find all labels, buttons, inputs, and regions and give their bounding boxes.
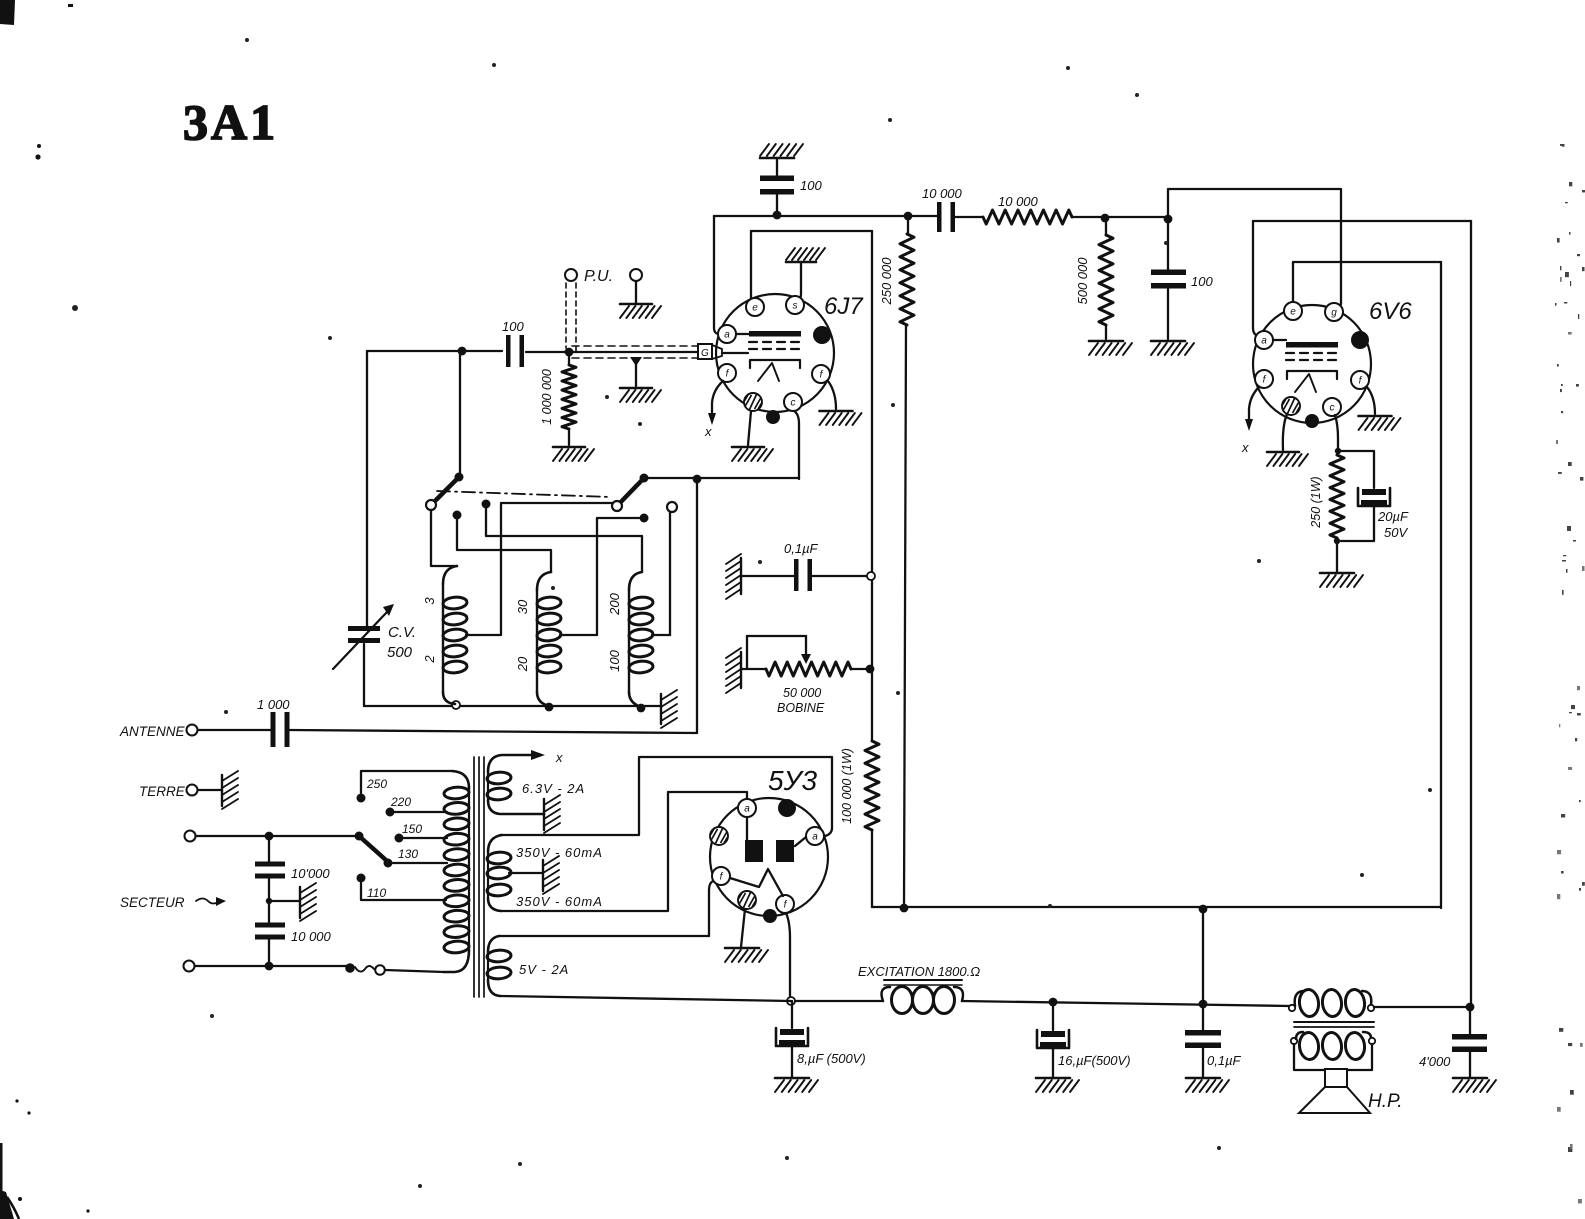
svg-text:s: s xyxy=(793,301,798,312)
wire rail to choke xyxy=(795,1000,883,1002)
transformer 350V winding xyxy=(487,835,512,911)
node screen/pot xyxy=(866,665,875,674)
node cathode/antenna xyxy=(693,475,702,484)
wire terre to ground xyxy=(198,789,222,791)
wire rail riser to lower rail xyxy=(1202,909,1204,1004)
wire antenna line xyxy=(289,730,697,733)
svg-text:EXCITATION 1800.Ω: EXCITATION 1800.Ω xyxy=(858,964,980,979)
wire 6J7 plate bus xyxy=(714,215,939,217)
ground (below 100pF 6V6) xyxy=(1151,341,1194,355)
svg-text:a: a xyxy=(1261,336,1267,347)
contact band 3 right xyxy=(667,502,677,512)
svg-text:8,µF (500V): 8,µF (500V) xyxy=(797,1051,866,1066)
svg-text:250 000: 250 000 xyxy=(879,257,894,306)
node coil2 bottom xyxy=(545,703,554,712)
ground block (6.3V) xyxy=(544,795,560,833)
scan artifact bottom-left xyxy=(0,1099,90,1219)
transformer T1 core xyxy=(474,757,484,997)
node mains/cap1 xyxy=(265,832,274,841)
ground (below 0,1µF) xyxy=(1186,1078,1229,1092)
contact 150 xyxy=(395,822,448,843)
resistor 500 000 (grid leak) xyxy=(1075,218,1113,339)
node rectifier output xyxy=(787,997,795,1005)
ground block (mains filter) xyxy=(300,883,316,921)
node 500k top xyxy=(1101,214,1110,223)
choke EXCITATION 1800Ω xyxy=(858,964,980,1014)
capacitor 0,1µF (screen decoupling) xyxy=(784,541,819,591)
wire antenna riser xyxy=(696,479,698,733)
switch arm left (band selector) xyxy=(426,473,464,511)
wire gnd to pot xyxy=(741,668,766,670)
fuse/switch (mains) xyxy=(345,963,444,975)
output tube 6V6 xyxy=(1253,298,1412,428)
svg-text:1 000: 1 000 xyxy=(257,697,290,712)
wire gnd to 0,1µF xyxy=(741,575,794,577)
svg-text:150: 150 xyxy=(402,822,422,836)
node plate line / 4000 xyxy=(1466,1003,1475,1012)
node plate 6J7 xyxy=(773,211,782,220)
contact 110 xyxy=(357,874,447,901)
ground (6V6 filament) xyxy=(1359,416,1401,430)
node 16µF xyxy=(1049,998,1058,1007)
capacitor 10 000 (mains filter 1) xyxy=(255,836,330,924)
svg-text:BOBINE: BOBINE xyxy=(777,701,825,715)
svg-text:TERRE: TERRE xyxy=(139,784,186,799)
contact band 3 left xyxy=(482,500,491,509)
wire cap 100 to plate node xyxy=(776,191,778,215)
svg-text:100: 100 xyxy=(502,319,524,334)
svg-text:100: 100 xyxy=(1191,274,1213,289)
svg-text:5V - 2A: 5V - 2A xyxy=(519,962,569,977)
X marker (6V6 heater) xyxy=(1241,387,1259,455)
node mains bottom/cap2 xyxy=(265,962,274,971)
transformer T1 primary xyxy=(444,771,470,972)
wire cathode to ground xyxy=(1336,541,1338,572)
label 350V b xyxy=(516,894,603,909)
wire pot to screen line xyxy=(851,668,866,670)
wire mains top xyxy=(196,835,355,837)
capacitor 100 (6V6 grid) xyxy=(1151,219,1213,339)
ground (P.U. right) xyxy=(620,304,661,318)
scan speckles right edge xyxy=(1555,144,1585,1203)
svg-text:110: 110 xyxy=(367,886,386,900)
wire ground to cap 100 xyxy=(776,159,778,179)
node coil1 bottom xyxy=(452,701,460,709)
ground block (TERRE) xyxy=(222,771,238,809)
wire 5Y3 unused pin to ground xyxy=(741,909,745,947)
wire 6J7 screen box xyxy=(751,231,872,304)
switch link (dash-dot) xyxy=(437,491,610,497)
variable capacitor C.V. 500 xyxy=(333,604,416,669)
svg-text:20: 20 xyxy=(515,656,530,672)
svg-text:6J7: 6J7 xyxy=(824,293,864,320)
svg-text:C.V.: C.V. xyxy=(388,624,416,641)
wire screen feed vertical xyxy=(871,231,873,740)
wire cathode bus xyxy=(645,477,799,479)
loudspeaker H.P. xyxy=(1299,1069,1403,1113)
contact 220 xyxy=(386,795,448,817)
svg-text:20µF: 20µF xyxy=(1377,509,1409,524)
wire 350V center tap xyxy=(509,872,543,874)
switch arm right (band selector) xyxy=(612,474,649,512)
label 350V a xyxy=(516,845,603,860)
wire 350V top to 5Y3 plate xyxy=(500,757,832,836)
terminal ANTENNE xyxy=(119,724,198,739)
rectifier tube 5Y3 xyxy=(710,765,828,923)
svg-text:250 (1W): 250 (1W) xyxy=(1309,476,1323,528)
grid cap terminal G of 6J7 xyxy=(698,344,722,359)
svg-text:200: 200 xyxy=(607,592,622,615)
wire grid line left xyxy=(367,350,502,352)
svg-text:c: c xyxy=(791,398,796,409)
wire coil L1 tap xyxy=(466,503,612,635)
terminal P.U. left xyxy=(565,268,613,285)
capacitor 0,1µF (tone) xyxy=(1185,1004,1242,1077)
transformer 5V winding xyxy=(487,936,512,996)
switch arm mains selector xyxy=(355,832,388,862)
wire secondary to speaker xyxy=(1294,1044,1372,1070)
terminal SECTEUR top xyxy=(185,831,196,842)
svg-text:4'000: 4'000 xyxy=(1419,1054,1451,1069)
svg-text:6V6: 6V6 xyxy=(1369,298,1412,325)
arrow X (6.3V) xyxy=(531,750,563,765)
svg-text:e: e xyxy=(1290,307,1296,318)
svg-text:H.P.: H.P. xyxy=(1368,1091,1403,1112)
shield ground tap xyxy=(630,357,642,386)
wire arm to grid line xyxy=(459,351,461,473)
svg-text:2: 2 xyxy=(422,655,437,664)
node 0,1µF bottom xyxy=(1199,1000,1208,1009)
svg-text:e: e xyxy=(752,303,758,314)
svg-text:ANTENNE: ANTENNE xyxy=(119,724,186,739)
ground (shield) xyxy=(620,388,661,402)
svg-text:a: a xyxy=(724,330,730,341)
wire plate riser 6J7 xyxy=(714,216,718,334)
wire 5V top to 5Y3 filament xyxy=(499,881,713,936)
svg-text:350V - 60mA: 350V - 60mA xyxy=(516,894,603,909)
svg-text:x: x xyxy=(1241,440,1249,455)
node cathode top xyxy=(1335,448,1341,454)
wire screen drop to B+ rail xyxy=(1440,262,1442,908)
svg-text:50V: 50V xyxy=(1384,525,1408,540)
wire 5Y3 filament to rail xyxy=(786,913,790,1001)
svg-text:3: 3 xyxy=(422,597,437,605)
label 5V xyxy=(519,962,569,977)
svg-text:P.U.: P.U. xyxy=(584,268,613,285)
node 250k/B+ rail xyxy=(900,904,909,913)
wire contact to coil2 tap xyxy=(597,518,639,635)
svg-text:x: x xyxy=(555,750,563,765)
ground (top, above 100pF cap) xyxy=(760,144,803,158)
wire 6V6 plate line xyxy=(1253,221,1471,335)
svg-text:x: x xyxy=(704,424,712,439)
svg-text:10 000: 10 000 xyxy=(291,929,332,944)
node rail/0,1µF riser xyxy=(1199,905,1208,914)
wire coil L2 tap xyxy=(560,634,597,636)
svg-text:a: a xyxy=(744,804,750,815)
svg-text:5У3: 5У3 xyxy=(768,765,817,796)
svg-text:a: a xyxy=(812,832,818,843)
wire 6V6 grid riser xyxy=(1168,189,1341,308)
ground (below 500k) xyxy=(1089,341,1132,355)
wire 6V6 unused to ground xyxy=(1283,414,1287,450)
contact band 2 right xyxy=(640,514,649,523)
potentiometer 50 000 BOBINE xyxy=(747,636,851,715)
ground (6V6 cathode) xyxy=(1320,573,1363,587)
svg-text:10 000: 10 000 xyxy=(922,186,963,201)
svg-text:G: G xyxy=(701,348,709,359)
ground block (350V CT) xyxy=(543,856,559,894)
wire cap to resistor xyxy=(953,216,983,218)
terminal P.U. right xyxy=(630,269,642,303)
output transformer core xyxy=(1294,1022,1374,1027)
output transformer secondary xyxy=(1291,1032,1375,1061)
resistor 250 000 (plate load) xyxy=(879,216,914,907)
wire 6J7 f right to ground xyxy=(828,381,836,409)
shielded grid lead (dashed) xyxy=(566,283,697,358)
ground (below 16µF) xyxy=(1036,1078,1079,1092)
resistor 10 000 (series grid) xyxy=(983,194,1072,224)
label 6.3V xyxy=(522,781,585,796)
title 3A1 xyxy=(183,94,278,150)
node coil3 bottom xyxy=(637,704,646,713)
resistor 250 (1W) cathode xyxy=(1309,455,1344,538)
svg-text:100 000 (1W): 100 000 (1W) xyxy=(840,748,854,824)
terminal TERRE xyxy=(139,784,198,799)
scan artifact top-left blob xyxy=(0,0,73,160)
wire 350V bottom to 5Y3 plate xyxy=(501,792,747,911)
wire B+ rail xyxy=(872,906,1441,908)
ground (6J7 suppressor, inside box) xyxy=(786,248,825,301)
capacitor 16µF (filter) xyxy=(1037,1002,1131,1077)
ground (6J7 filament) xyxy=(820,411,862,425)
wire 0,1µF to screen line xyxy=(812,575,867,577)
wire rail choke to out-transformer xyxy=(962,1001,1290,1006)
wire resistor to grid node xyxy=(1072,216,1168,218)
node screen/0,1µF xyxy=(867,572,875,580)
wire antenna to cap xyxy=(198,729,271,731)
svg-text:0,1µF: 0,1µF xyxy=(1207,1053,1242,1068)
svg-text:220: 220 xyxy=(390,795,411,809)
svg-text:0,1µF: 0,1µF xyxy=(784,541,819,556)
svg-text:100: 100 xyxy=(607,649,622,671)
node grid/1M xyxy=(565,348,574,357)
svg-text:10'000: 10'000 xyxy=(291,866,330,881)
ground (below 1M) xyxy=(553,447,594,461)
capacitor 8µF (filter) xyxy=(776,1001,866,1077)
wire filter mid to ground xyxy=(269,900,300,902)
svg-text:250: 250 xyxy=(366,777,387,791)
contact 130 xyxy=(384,847,448,868)
ground (below 4000) xyxy=(1453,1078,1496,1092)
transformer 6.3V winding xyxy=(487,755,544,814)
resistor 1 000 000 (grid leak) xyxy=(540,352,576,445)
ground (below 5Y3) xyxy=(725,948,768,962)
coil L1 (3/2) xyxy=(422,510,467,704)
ground block (50 000 pot) xyxy=(726,648,741,693)
capacitor 10 000 (coupling) xyxy=(922,186,963,232)
capacitor 1 000 (antenna) xyxy=(257,697,290,747)
svg-text:350V - 60mA: 350V - 60mA xyxy=(516,845,603,860)
svg-text:g: g xyxy=(1331,308,1337,319)
svg-text:10 000: 10 000 xyxy=(998,194,1039,209)
wire 6J7 unused to ground xyxy=(748,411,751,445)
capacitor 10 000 (mains filter 2) xyxy=(255,923,332,967)
wire 6V6 f right to ground xyxy=(1367,387,1375,414)
svg-text:500 000: 500 000 xyxy=(1075,257,1090,305)
wire coil common (bottom of box) xyxy=(364,705,661,707)
contact band 2 left xyxy=(453,511,462,520)
pentode tube 6J7 xyxy=(716,293,864,424)
svg-text:30: 30 xyxy=(515,599,530,614)
wire grid to C.V. vertical xyxy=(366,351,368,627)
wire grid line right xyxy=(526,351,700,353)
wire 6V6 cathode xyxy=(1335,415,1338,451)
ground (below 6J7) xyxy=(732,447,773,461)
svg-text:100: 100 xyxy=(800,178,822,193)
label SECTEUR xyxy=(120,895,226,910)
svg-text:500: 500 xyxy=(387,644,413,661)
wire contact to coil3 tap xyxy=(669,512,671,635)
svg-text:3A1: 3A1 xyxy=(183,94,278,150)
resistor 100 000 (1W) xyxy=(840,741,879,907)
capacitor 4 000 (tone across primary) xyxy=(1419,1007,1487,1077)
coil L2 (30/20) xyxy=(515,572,561,706)
wire coil L3 tap xyxy=(652,634,670,636)
X marker (6J7 heater) xyxy=(704,381,723,439)
output transformer primary xyxy=(1289,989,1466,1018)
svg-text:6.3V - 2A: 6.3V - 2A xyxy=(522,781,585,796)
svg-text:SECTEUR: SECTEUR xyxy=(120,895,185,910)
ground block (coil common) xyxy=(661,690,677,728)
svg-text:c: c xyxy=(1330,403,1335,414)
wire cathode riser xyxy=(794,411,799,479)
wire rectifier rail left xyxy=(500,996,791,1001)
svg-text:130: 130 xyxy=(398,847,418,861)
wire 6V6 screen line xyxy=(1293,262,1441,302)
capacitor 100 (grid series) xyxy=(502,319,524,367)
ground block (0,1µF) xyxy=(726,554,741,599)
node cathode bottom xyxy=(1334,538,1340,544)
node switch riser/grid xyxy=(458,347,467,356)
terminal SECTEUR bottom xyxy=(184,961,195,972)
contact 250 xyxy=(357,771,453,803)
svg-text:50 000: 50 000 xyxy=(783,686,821,700)
svg-text:1 000 000: 1 000 000 xyxy=(540,369,554,425)
wire contact to coil2 top xyxy=(457,519,551,572)
wire C.V. to common xyxy=(363,644,365,706)
node 6V6 grid riser xyxy=(1164,215,1173,224)
wire plate drop to output transformer xyxy=(1470,221,1472,1006)
node 250k top xyxy=(904,212,913,221)
ground (below 8µF) xyxy=(775,1078,818,1092)
wire mains bottom xyxy=(195,965,347,967)
svg-text:16,µF(500V): 16,µF(500V) xyxy=(1058,1053,1131,1068)
wire contact to coil3 top xyxy=(486,508,642,572)
node filter mid xyxy=(266,898,272,904)
capacitor 100 (plate decoupling) xyxy=(760,176,822,195)
ground (6V6 pin) xyxy=(1267,452,1308,466)
capacitor 20µF 50V (cathode bypass) xyxy=(1338,451,1409,541)
coil L3 (200/100) xyxy=(607,572,653,707)
